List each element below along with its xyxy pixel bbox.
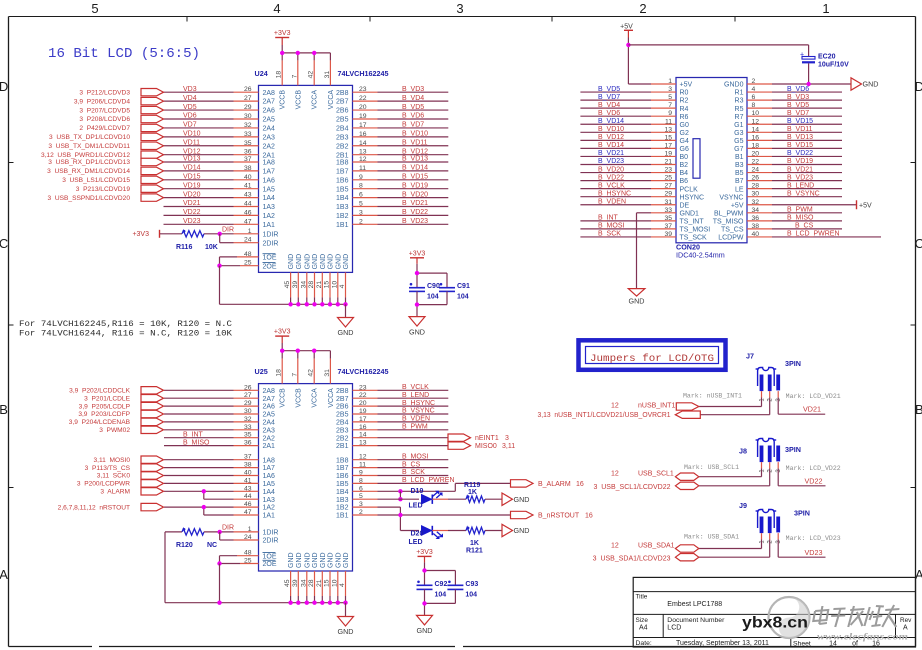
junction dot bottom C90 [415, 302, 419, 306]
svg-text:GND: GND [863, 80, 879, 89]
wire net B_CS from right pin 11 [353, 461, 449, 468]
svg-text:A: A [0, 567, 8, 582]
svg-text:Mark: LCD_VD21: Mark: LCD_VD21 [786, 393, 841, 400]
svg-text:13: 13 [359, 149, 367, 156]
svg-text:PCLK: PCLK [680, 186, 699, 193]
wires U24 GND pins to bus [291, 272, 346, 304]
wire net B_HSYNC from right pin 20 [353, 400, 449, 407]
svg-text:74LVCH162245: 74LVCH162245 [338, 69, 389, 78]
label J7 [746, 351, 754, 360]
svg-text:23: 23 [359, 384, 367, 391]
wire J7 pin 3 to VD21 [778, 397, 825, 414]
off-page flag VD10 [141, 133, 164, 140]
svg-text:B_VD3: B_VD3 [402, 86, 424, 93]
svg-text:10K: 10K [205, 244, 218, 251]
svg-text:B_VD6: B_VD6 [787, 86, 809, 93]
wire net B_PWM from CON20 pin 34 [747, 207, 842, 214]
svg-text:1B2: 1B2 [336, 505, 349, 512]
svg-text:46: 46 [244, 501, 252, 508]
svg-text:C: C [0, 236, 8, 251]
wire pin 5 to LED D19 [353, 493, 420, 500]
wire DIR net [204, 227, 259, 235]
power +3V3 at C92 [416, 549, 433, 571]
wire net B_VD11 from CON20 pin 14 [747, 126, 842, 133]
svg-text:B_VD10: B_VD10 [598, 126, 624, 133]
svg-text:B_MISO: B_MISO [787, 215, 814, 222]
wire net B_VD21 from CON20 pin 24 [747, 166, 842, 173]
svg-text:2: 2 [359, 509, 363, 516]
svg-text:VD11: VD11 [183, 139, 200, 146]
svg-text:VD19: VD19 [183, 182, 201, 189]
svg-text:44: 44 [244, 493, 252, 500]
svg-text:20: 20 [359, 104, 367, 111]
svg-text:1A3: 1A3 [263, 204, 276, 211]
wire net B_SCK from right pin 9 [353, 469, 449, 476]
wire net VD20 to left pin 43 [164, 191, 259, 198]
svg-text:1B6: 1B6 [336, 177, 349, 184]
svg-text:B_VD6: B_VD6 [598, 110, 620, 117]
svg-text:3 USB_TX_DM1/LCDVD11: 3 USB_TX_DM1/LCDVD11 [48, 143, 130, 150]
junction dot 2OE [217, 264, 221, 268]
svg-text:38: 38 [244, 462, 252, 469]
wire net VD7 to left pin 32 [164, 122, 259, 129]
svg-text:GND: GND [409, 327, 425, 336]
svg-text:B_VD19: B_VD19 [787, 158, 813, 165]
wire R119 to ground [485, 498, 502, 500]
svg-text:3: 3 [505, 435, 509, 442]
signal ref label nRSTOUT [58, 504, 130, 511]
svg-text:B_HSYNC: B_HSYNC [598, 190, 631, 197]
svg-text:104: 104 [427, 293, 439, 300]
svg-text:B1: B1 [735, 154, 744, 161]
off-page flag nUSB_INT1 [611, 402, 699, 410]
wire 1OE to ground bus [220, 251, 259, 266]
resistor R119 1K [464, 482, 485, 503]
svg-text:36: 36 [244, 440, 252, 447]
wire net B_SCK to CON20 pin 39 [580, 231, 676, 238]
svg-text:3 USB_SDA1/LCDVD23: 3 USB_SDA1/LCDVD23 [593, 555, 671, 562]
svg-text:C92: C92 [435, 581, 448, 588]
wire pin 47 paired [204, 507, 259, 516]
wire net B_VD7 from right pin 17 [353, 122, 449, 129]
wire net pin 41 to left pin 41 [164, 477, 259, 484]
svg-text:3: 3 [359, 501, 363, 508]
svg-text:B_CS: B_CS [795, 223, 814, 230]
svg-text:2A1: 2A1 [263, 152, 276, 159]
svg-text:2A7: 2A7 [263, 396, 276, 403]
svg-text:B: B [915, 402, 922, 417]
wire net nEINT1 from pin 14 [353, 432, 449, 439]
ground symbol CON20 [628, 289, 645, 306]
svg-text:24: 24 [244, 237, 252, 244]
svg-text:1A3: 1A3 [263, 497, 276, 504]
svg-text:For 74LVCH16244, R116 = N.C, R: For 74LVCH16244, R116 = N.C, R120 = 10K [19, 330, 232, 339]
svg-text:15: 15 [664, 134, 672, 141]
svg-text:B_VD7: B_VD7 [787, 110, 809, 117]
svg-text:1A1: 1A1 [263, 222, 276, 229]
signal ref label P113/TS_CS [85, 465, 131, 472]
svg-text:B_VD6: B_VD6 [402, 113, 424, 120]
svg-text:22: 22 [752, 159, 760, 166]
svg-text:1B3: 1B3 [336, 204, 349, 211]
svg-text:B_LCD_PWREN: B_LCD_PWREN [787, 231, 840, 238]
wire net VD19 to left pin 41 [164, 182, 259, 189]
svg-text:D: D [915, 79, 922, 94]
svg-text:IDC40-2.54mm: IDC40-2.54mm [676, 251, 725, 260]
wire net B_VD15 from CON20 pin 12 [747, 118, 842, 125]
svg-text:VD22: VD22 [805, 477, 823, 486]
svg-text:12: 12 [611, 470, 619, 477]
capacitor C92 104 [417, 581, 448, 599]
wire net B_VD3 from CON20 pin 6 [747, 94, 842, 101]
wire net B_VD14 to CON20 pin 17 [580, 142, 676, 149]
svg-text:VCCA: VCCA [328, 388, 335, 408]
svg-text:B_VD5: B_VD5 [787, 102, 809, 109]
signal ref label ALARM [100, 489, 130, 496]
IC U24 GND pins [284, 254, 350, 289]
jumper J8 3PIN [756, 439, 783, 473]
svg-text:www.elecfans.com: www.elecfans.com [817, 633, 908, 643]
svg-text:GND: GND [417, 626, 433, 635]
power +3V3 at C90 [409, 250, 426, 273]
svg-text:B_VCLK: B_VCLK [402, 384, 429, 391]
svg-text:30: 30 [244, 408, 252, 415]
svg-text:GND: GND [338, 328, 354, 337]
wire OE down to GND bus U24 [220, 266, 346, 305]
signal ref label USB_LS1/LCDVD15 [62, 177, 130, 184]
svg-text:+5V: +5V [731, 202, 744, 209]
svg-text:36: 36 [244, 149, 252, 156]
svg-text:2,6,7,8,11,12 nRSTOUT: 2,6,7,8,11,12 nRSTOUT [58, 504, 130, 511]
svg-text:104: 104 [457, 293, 469, 300]
text Mark: LCD_VD22 [786, 465, 841, 472]
wire pin 3 down [353, 501, 401, 530]
svg-text:35: 35 [244, 140, 252, 147]
svg-text:16: 16 [585, 512, 593, 519]
svg-text:MISO0: MISO0 [475, 443, 497, 450]
svg-text:2A6: 2A6 [263, 108, 276, 115]
wire EC20 to GND0 net [808, 63, 810, 84]
wire net B_VD20 to CON20 pin 23 [580, 166, 676, 173]
svg-text:GND: GND [288, 552, 295, 568]
svg-text:B_VD5: B_VD5 [598, 86, 620, 93]
signal ref label P208/LCDVD6 [79, 116, 130, 123]
svg-text:3,13 nUSB_INT1/LCDVD21/USB_OV: 3,13 nUSB_INT1/LCDVD21/USB_OVRCR1 [538, 412, 671, 419]
svg-text:46: 46 [244, 209, 252, 216]
svg-text:3,9 P202/LCDDCLK: 3,9 P202/LCDDCLK [69, 388, 130, 395]
svg-text:74LVCH162245: 74LVCH162245 [338, 367, 389, 376]
svg-text:1A7: 1A7 [263, 465, 276, 472]
capacitor C91 104 [439, 283, 470, 300]
off-page flag VD4 [141, 97, 164, 104]
svg-text:4: 4 [752, 86, 756, 93]
power +3V3 above U24 [274, 30, 291, 53]
svg-text:1B5: 1B5 [336, 186, 349, 193]
svg-text:B_VD7: B_VD7 [402, 122, 424, 129]
off-page flag USB_SDA1/LCDVD23 [593, 554, 699, 563]
svg-text:Jumpers for LCD/OTG: Jumpers for LCD/OTG [590, 353, 714, 365]
off-page flag USB_SDA1 [611, 542, 699, 552]
svg-text:3 P200/LCDPWR: 3 P200/LCDPWR [77, 481, 130, 488]
junction dot DIR [218, 232, 222, 236]
svg-text:VCCB: VCCB [280, 388, 287, 408]
svg-text:3 ALARM: 3 ALARM [100, 489, 130, 496]
svg-text:C90: C90 [427, 283, 440, 290]
svg-text:10: 10 [752, 110, 760, 117]
capacitor C93 104 [447, 581, 478, 599]
svg-text:104: 104 [435, 591, 447, 598]
svg-text:B_VD14: B_VD14 [402, 165, 428, 172]
svg-text:8: 8 [752, 102, 756, 109]
svg-text:1B3: 1B3 [336, 497, 349, 504]
junction dot pin 6 [398, 489, 402, 493]
svg-text:24: 24 [244, 534, 252, 541]
svg-text:1DIR: 1DIR [263, 231, 279, 238]
wire J9 pin 1 to USB_SDA1 flag [699, 539, 762, 548]
svg-text:3,12 USB_PWRD1/LCDVD12: 3,12 USB_PWRD1/LCDVD12 [41, 152, 130, 159]
svg-text:G0: G0 [680, 122, 689, 129]
svg-text:VD4: VD4 [183, 95, 197, 102]
svg-text:1B1: 1B1 [336, 513, 349, 520]
svg-text:3PIN: 3PIN [785, 445, 801, 454]
svg-text:11: 11 [665, 118, 672, 125]
wire net VD3 to left pin 26 [164, 86, 259, 93]
svg-text:11: 11 [359, 165, 366, 172]
watermark text ybx8.cn [742, 615, 808, 632]
wire net B_VD5 from right pin 20 [353, 104, 449, 111]
svg-text:22: 22 [359, 392, 367, 399]
off-page flag B_nRSTOUT [511, 511, 593, 519]
svg-text:GND1: GND1 [680, 210, 700, 217]
svg-text:37: 37 [244, 454, 252, 461]
connector CON20 key mark [693, 139, 700, 179]
IC U25 right pin names [336, 388, 349, 520]
svg-text:27: 27 [664, 183, 672, 190]
junction dots U24 GND bus [288, 302, 347, 306]
svg-text:2B5: 2B5 [336, 412, 349, 419]
svg-text:2B2: 2B2 [336, 435, 349, 442]
svg-text:16: 16 [576, 481, 584, 488]
svg-text:12: 12 [611, 542, 619, 549]
off-page flag [141, 488, 164, 495]
svg-text:TS_MOSI: TS_MOSI [680, 227, 711, 234]
wire 2OE to ground bus [220, 260, 259, 267]
IC U25 VCC pins [276, 369, 335, 408]
svg-text:2B5: 2B5 [336, 117, 349, 124]
svg-text:6: 6 [752, 94, 756, 101]
svg-text:B_VD23: B_VD23 [787, 174, 813, 181]
text Mark: LCD_VD21 [786, 393, 841, 400]
watermark url www.elecfans.com [817, 633, 908, 643]
svg-text:B_VD22: B_VD22 [787, 150, 813, 157]
wire net B_VSYNC from right pin 19 [353, 408, 449, 415]
svg-text:NC: NC [207, 542, 217, 549]
svg-text:16 Bit LCD (5:6:5): 16 Bit LCD (5:6:5) [48, 47, 200, 62]
svg-text:10uF/10V: 10uF/10V [818, 62, 849, 69]
wire net B_VD19 from CON20 pin 22 [747, 158, 842, 165]
svg-text:GND: GND [335, 552, 342, 568]
svg-text:VCCA: VCCA [312, 90, 319, 110]
grid row letters [0, 79, 922, 582]
svg-text:B_VD4: B_VD4 [402, 95, 424, 102]
svg-text:5: 5 [359, 493, 363, 500]
wire net B_VD22 to CON20 pin 25 [580, 174, 676, 181]
svg-text:1A5: 1A5 [263, 481, 276, 488]
svg-text:+3V3: +3V3 [409, 250, 426, 257]
svg-text:C91: C91 [457, 283, 470, 290]
svg-text:G4: G4 [680, 138, 689, 145]
wire net B_VD7 from CON20 pin 10 [747, 110, 842, 117]
svg-text:B_VD4: B_VD4 [598, 102, 620, 109]
svg-text:B_SCK: B_SCK [402, 469, 425, 476]
svg-text:GND: GND [296, 254, 303, 270]
svg-text:20: 20 [359, 400, 367, 407]
svg-text:38: 38 [752, 223, 760, 230]
svg-text:40: 40 [244, 470, 252, 477]
svg-text:GND: GND [343, 552, 350, 568]
svg-text:TS_CS: TS_CS [721, 227, 744, 234]
svg-text:47: 47 [244, 509, 252, 516]
wire net B_VD4 to CON20 pin 7 [580, 102, 676, 109]
svg-text:19: 19 [664, 150, 672, 157]
wire net B_VD22 from right pin 3 [353, 209, 449, 216]
svg-text:B_SCK: B_SCK [598, 231, 621, 238]
svg-text:B_MISO: B_MISO [183, 439, 210, 446]
wire pin 44 paired [204, 491, 259, 500]
off-page flag [141, 418, 164, 425]
svg-text:1A8: 1A8 [263, 160, 276, 167]
off-page flag VD19 [141, 185, 164, 192]
svg-text:B_VD11: B_VD11 [787, 126, 813, 133]
svg-text:28: 28 [752, 183, 760, 190]
svg-text:13: 13 [664, 126, 672, 133]
svg-text:G7: G7 [734, 146, 743, 153]
svg-text:1B2: 1B2 [336, 213, 349, 220]
svg-text:U24: U24 [255, 69, 268, 78]
wire net B_VD6 to CON20 pin 9 [580, 110, 676, 117]
wire net B_INT to left pin 35 [164, 431, 259, 438]
junction dot bottom C92 [422, 601, 426, 605]
wire net B_VD11 from right pin 14 [353, 139, 449, 146]
svg-text:9: 9 [359, 470, 363, 477]
IC U24 VCC pins [276, 71, 335, 110]
svg-text:G1: G1 [734, 122, 743, 129]
title block texts [636, 594, 913, 648]
svg-text:19: 19 [359, 408, 367, 415]
wire net B_VD3 from right pin 23 [353, 86, 449, 93]
off-page flag VD3 [141, 89, 164, 96]
wire net B_INT to CON20 pin 35 [580, 215, 676, 222]
capacitor C90 104 [409, 283, 440, 300]
wire pin 6 to B_ALARM flag [353, 483, 511, 492]
wire net VD12 to left pin 36 [164, 148, 259, 155]
svg-text:For 74LVCH162245,R116 = 10K, R: For 74LVCH162245,R116 = 10K, R120 = N.C [19, 320, 232, 329]
svg-text:3 P208/LCDVD6: 3 P208/LCDVD6 [79, 116, 130, 123]
wire 2DIR to DIR net [220, 234, 259, 244]
svg-text:1DIR: 1DIR [263, 530, 279, 537]
svg-text:B_VD20: B_VD20 [598, 166, 624, 173]
svg-text:1B6: 1B6 [336, 473, 349, 480]
svg-text:+3V3: +3V3 [132, 231, 149, 238]
text Mark: USB_SCL1 [684, 464, 739, 471]
label box Jumpers for LCD/OTG [579, 340, 726, 370]
svg-text:24: 24 [752, 167, 760, 174]
svg-text:B_PWM: B_PWM [787, 207, 813, 214]
off-page flag [141, 456, 164, 463]
ground arrow GND0 [851, 78, 878, 90]
LED D19 [409, 488, 443, 509]
svg-text:14: 14 [359, 140, 367, 147]
svg-text:Title: Title [636, 594, 648, 601]
junction dot top C92 [422, 568, 426, 572]
svg-text:R7: R7 [735, 114, 744, 121]
label 3PIN J7 [785, 359, 801, 368]
svg-text:2B3: 2B3 [336, 134, 349, 141]
svg-text:B_VD21: B_VD21 [787, 166, 813, 173]
off-page flag nEINT1 [448, 434, 509, 442]
wire net B_VSYNC from CON20 pin 30 [747, 190, 842, 197]
svg-text:B3: B3 [735, 162, 744, 169]
signal ref label PWM02 [99, 427, 130, 434]
off-page flag [141, 387, 164, 394]
svg-text:R120: R120 [176, 542, 193, 549]
svg-text:1A6: 1A6 [263, 473, 276, 480]
junction dots U25 GND bus [288, 601, 347, 605]
svg-text:1A2: 1A2 [263, 505, 276, 512]
svg-text:2B3: 2B3 [336, 427, 349, 434]
watermark logo circle [769, 597, 810, 638]
wire net pin 46 to left pin 46 [164, 501, 259, 508]
wire LED D20 to R121 [432, 530, 466, 532]
off-page flag [141, 426, 164, 433]
svg-text:VCCB: VCCB [295, 388, 302, 408]
wire pin 2 to B_nRSTOUT flag [353, 509, 511, 516]
svg-text:40: 40 [752, 231, 760, 238]
svg-text:1B7: 1B7 [336, 169, 349, 176]
svg-text:HSYNC: HSYNC [680, 194, 705, 201]
svg-text:5: 5 [668, 94, 672, 101]
label J8 [739, 447, 747, 456]
wire net VD15 to left pin 40 [164, 174, 259, 181]
svg-text:GND: GND [296, 552, 303, 568]
svg-text:2DIR: 2DIR [263, 538, 279, 545]
svg-text:B7: B7 [735, 178, 744, 185]
svg-text:12: 12 [611, 402, 619, 409]
svg-text:VD15: VD15 [183, 174, 201, 181]
wire net B_HSYNC to CON20 pin 29 [580, 190, 676, 197]
svg-text:B_VD23: B_VD23 [402, 218, 428, 225]
svg-text:6: 6 [359, 192, 363, 199]
svg-text:2A7: 2A7 [263, 99, 276, 106]
svg-text:32: 32 [244, 122, 252, 129]
text Mark: LCD_VD23 [786, 535, 841, 542]
resistor R116 10K [160, 230, 218, 251]
svg-text:3: 3 [456, 1, 463, 16]
svg-text:D20: D20 [411, 531, 424, 538]
svg-text:27: 27 [244, 392, 252, 399]
svg-text:C93: C93 [465, 581, 478, 588]
svg-text:B_VD14: B_VD14 [598, 142, 624, 149]
svg-text:2A6: 2A6 [263, 404, 276, 411]
wire 2OE U25 [220, 558, 259, 565]
svg-text:2: 2 [359, 218, 363, 225]
svg-text:G6: G6 [680, 146, 689, 153]
wire net B_VD23 from CON20 pin 26 [747, 174, 842, 181]
title block frame [633, 577, 915, 647]
IC U25 left pin names [263, 388, 279, 568]
wire LED D19 to R119 [432, 498, 466, 500]
svg-text:DIR: DIR [222, 227, 234, 234]
